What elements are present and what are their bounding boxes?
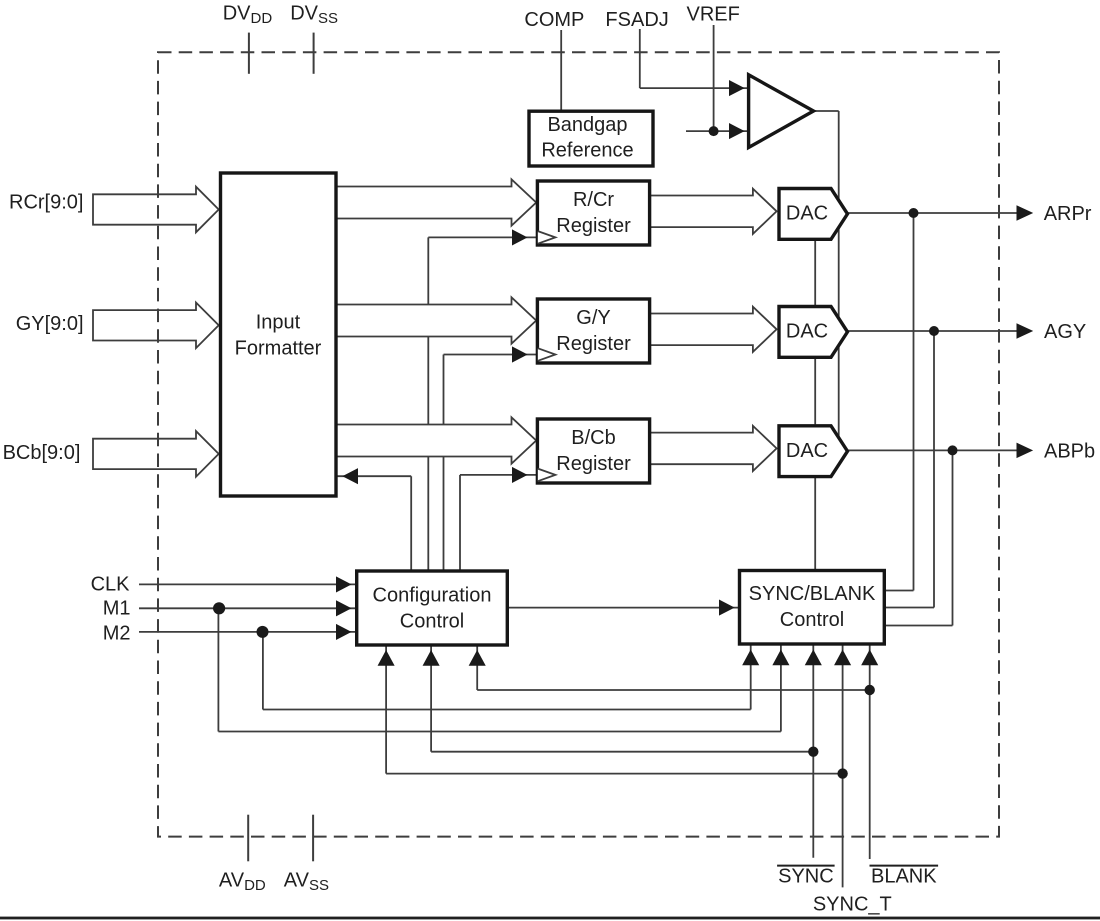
svg-text:Input: Input <box>256 312 301 334</box>
svg-text:Bandgap: Bandgap <box>547 114 627 136</box>
svg-text:BCb[9:0]: BCb[9:0] <box>3 442 81 464</box>
svg-text:DAC: DAC <box>786 440 828 462</box>
svg-text:SYNC_T: SYNC_T <box>813 894 892 916</box>
svg-text:SYNC: SYNC <box>778 865 834 887</box>
svg-text:COMP: COMP <box>524 9 584 31</box>
svg-text:Register: Register <box>556 453 631 475</box>
svg-text:FSADJ: FSADJ <box>605 9 668 31</box>
svg-text:GY[9:0]: GY[9:0] <box>16 313 84 335</box>
svg-text:Register: Register <box>556 333 631 355</box>
svg-text:DAC: DAC <box>786 203 828 225</box>
svg-text:Control: Control <box>400 611 464 633</box>
svg-text:ABPb: ABPb <box>1044 440 1095 462</box>
svg-text:B/Cb: B/Cb <box>571 427 615 449</box>
svg-text:Control: Control <box>780 609 844 631</box>
svg-text:Reference: Reference <box>541 139 633 161</box>
svg-text:Register: Register <box>556 215 631 237</box>
svg-text:BLANK: BLANK <box>871 865 937 887</box>
svg-text:CLK: CLK <box>91 573 131 595</box>
svg-text:RCr[9:0]: RCr[9:0] <box>9 192 83 214</box>
svg-text:DAC: DAC <box>786 321 828 343</box>
svg-text:R/Cr: R/Cr <box>573 189 614 211</box>
svg-text:VREF: VREF <box>687 4 740 26</box>
svg-text:G/Y: G/Y <box>576 307 610 329</box>
svg-text:Formatter: Formatter <box>235 338 322 360</box>
svg-text:SYNC/BLANK: SYNC/BLANK <box>749 583 876 605</box>
svg-text:AGY: AGY <box>1044 321 1086 343</box>
svg-text:Configuration: Configuration <box>373 585 492 607</box>
svg-text:M2: M2 <box>103 623 131 645</box>
svg-text:M1: M1 <box>103 598 131 620</box>
svg-text:ARPr: ARPr <box>1044 203 1092 225</box>
